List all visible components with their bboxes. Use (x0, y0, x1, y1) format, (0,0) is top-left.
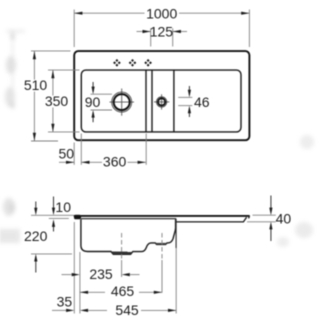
watermark smudge right (277, 135, 314, 247)
tap hole 1 (113, 59, 121, 67)
watermark smudge left lower (0, 198, 20, 243)
dim 1000 (74, 5, 249, 47)
svg-text:35: 35 (57, 293, 73, 309)
ext line small bowl right (175, 248, 177, 314)
svg-text:465: 465 (111, 283, 135, 299)
svg-text:40: 40 (276, 211, 292, 227)
svg-text:220: 220 (24, 228, 48, 244)
section rim left end block (74, 215, 81, 220)
divider wall left line (145, 70, 147, 131)
dim 90 (85, 82, 113, 122)
tap hole 2 (129, 59, 137, 67)
tap hole 3 (144, 59, 152, 67)
watermark smudge left upper (5, 29, 25, 109)
dim 235 (62, 266, 140, 282)
section rim underside line (81, 218, 176, 220)
inner basin outline (81, 70, 241, 132)
section bowls profile (81, 219, 176, 254)
divider wall right line (151, 70, 153, 131)
svg-text:510: 510 (24, 77, 48, 93)
svg-text:125: 125 (150, 23, 174, 39)
svg-text:46: 46 (194, 94, 210, 110)
section right wall line (175, 219, 177, 248)
svg-text:360: 360 (103, 153, 127, 169)
centerline small drain (161, 233, 163, 260)
svg-text:235: 235 (89, 266, 113, 282)
dim 125 (137, 23, 188, 46)
dim 10 (49, 197, 71, 232)
svg-text:10: 10 (55, 199, 71, 215)
sink outer outline (top view) (74, 51, 249, 140)
svg-text:50: 50 (59, 145, 75, 161)
section drainboard underside (176, 217, 246, 222)
dim 545 (88, 302, 176, 318)
dim 465 (80, 283, 162, 299)
drainboard divider line (173, 70, 175, 131)
ext line rim left (73, 222, 75, 314)
section rim top line (75, 215, 250, 217)
dim 50 bottom (59, 143, 75, 165)
section main drain bar (111, 252, 133, 255)
svg-text:1000: 1000 (146, 5, 177, 21)
centerline main drain (121, 233, 123, 260)
svg-text:90: 90 (85, 94, 101, 110)
section small drain bar (155, 243, 167, 245)
dim 46 (178, 86, 210, 117)
dim 40 (247, 196, 291, 242)
svg-text:545: 545 (115, 302, 139, 318)
dim 220 (24, 202, 74, 273)
dim 350 (45, 70, 80, 132)
small bowl drain circle (154, 94, 169, 109)
dim 35 (52, 293, 88, 312)
svg-text:350: 350 (45, 93, 69, 109)
main bowl drain circle (110, 89, 135, 116)
ext line bowl wall (79, 252, 81, 314)
dim 510 (24, 51, 71, 141)
dim 360 bottom (81, 134, 146, 170)
